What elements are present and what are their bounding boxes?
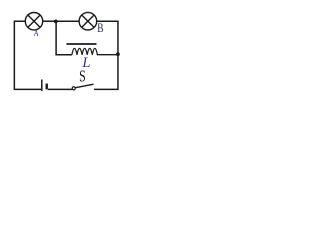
wire: top-left, left side and bottom-left segment to battery [14, 21, 41, 89]
battery long plate (negative left) [41, 80, 43, 92]
lamp B [79, 12, 97, 30]
svg-text:B: B [97, 21, 103, 35]
wire: junction node to lamp B [57, 20, 80, 22]
wire: battery positive plate to switch pivot [48, 88, 72, 90]
wire: lamp A to junction node [43, 20, 55, 22]
lamp A [25, 13, 42, 30]
junction node dot [54, 20, 58, 24]
switch S pivot ring [72, 87, 75, 90]
inductor L coil [72, 48, 116, 54]
inductor core bar [67, 43, 97, 45]
wire: lamp B to top-right corner, right side, bottom-right to switch contact [94, 21, 118, 89]
node dot at inductor right [116, 52, 120, 56]
battery short thick plate [46, 84, 48, 90]
wire: middle branch from junction node down and over to inductor [56, 22, 72, 55]
switch blade (open) [76, 84, 94, 88]
svg-text:A: A [34, 28, 39, 38]
svg-text:S: S [79, 68, 86, 86]
